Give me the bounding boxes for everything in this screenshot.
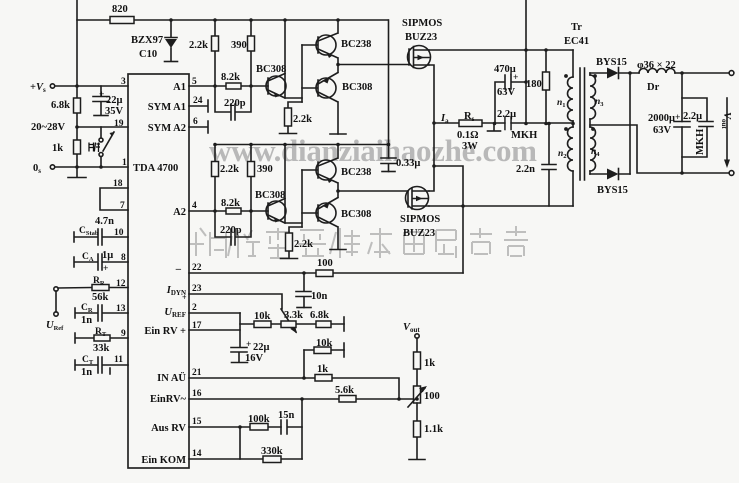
zener BZX97 C10 bbox=[165, 20, 177, 61]
wire 20-28V to pin19 bbox=[77, 126, 128, 128]
svg-text:22: 22 bbox=[192, 263, 202, 273]
wire 10k branch bbox=[240, 323, 344, 325]
svg-text:φ36 × 22: φ36 × 22 bbox=[637, 60, 676, 71]
svg-text:BC308: BC308 bbox=[255, 190, 285, 201]
wire n2 bottom to source rail bbox=[572, 171, 574, 206]
wire top supply rail bbox=[77, 19, 388, 21]
svg-text:+: + bbox=[246, 340, 251, 350]
diode BYS15 bottom bbox=[590, 173, 630, 175]
wire rectifier cathode bus bbox=[629, 73, 631, 174]
svg-text:A1: A1 bbox=[173, 82, 186, 93]
inductor Dr bbox=[639, 69, 675, 73]
resistor RR 56k pin12 bbox=[58, 287, 128, 290]
svg-text:Dr: Dr bbox=[647, 82, 660, 93]
svg-text:14: 14 bbox=[192, 449, 202, 459]
resistor 5.6k body bbox=[339, 396, 356, 403]
resistor 390 lower bbox=[250, 145, 252, 212]
arrow Vout bbox=[726, 98, 728, 160]
svg-text:2.2k: 2.2k bbox=[293, 114, 312, 125]
svg-text:63V: 63V bbox=[653, 125, 672, 136]
capacitor 22u 16V bbox=[231, 348, 247, 363]
svg-text:BYS15: BYS15 bbox=[596, 57, 627, 68]
capacitor 22u 35V bbox=[93, 86, 109, 115]
potentiometer 3.3k bbox=[281, 321, 296, 328]
terminal +Vs bbox=[50, 84, 54, 88]
transistor BC238 lower bbox=[316, 160, 336, 180]
resistor 390 upper bbox=[250, 20, 252, 86]
wire pin2/17 bus bbox=[239, 313, 241, 347]
svg-text:6.8k: 6.8k bbox=[51, 100, 70, 111]
transistor BC238 upper bbox=[316, 35, 336, 55]
svg-text:3: 3 bbox=[121, 77, 126, 87]
MOSFET M1 SIPMOS BUZ23 bbox=[408, 46, 431, 69]
wire pin23 to pot wiper bbox=[189, 294, 282, 309]
pin6 stub bbox=[189, 121, 208, 133]
wire feedback bus bbox=[301, 399, 303, 459]
resistor 1k body bbox=[74, 140, 81, 154]
svg-text:220p: 220p bbox=[220, 225, 242, 236]
capacitor 2000u 63V bbox=[681, 73, 683, 173]
svg-text:8.2k: 8.2k bbox=[221, 72, 240, 83]
vertical +V feed bus bbox=[525, 0, 527, 124]
svg-text:2.2n: 2.2n bbox=[516, 164, 535, 175]
svg-text:+: + bbox=[103, 264, 108, 274]
resistor 6.8k body bbox=[316, 321, 331, 328]
resistor 820 body bbox=[110, 17, 134, 24]
svg-text:6.8k: 6.8k bbox=[310, 310, 329, 321]
capacitor 2.2n bbox=[542, 124, 556, 207]
svg-text:URef: URef bbox=[46, 320, 64, 332]
potentiometer 100 bbox=[414, 386, 421, 403]
svg-text:3.3k: 3.3k bbox=[284, 310, 303, 321]
svg-text:Ia: Ia bbox=[440, 113, 449, 125]
junction pin19 bus bbox=[75, 125, 79, 129]
svg-text:2.2μ: 2.2μ bbox=[683, 111, 702, 122]
svg-text:MKH: MKH bbox=[695, 129, 706, 155]
wire base bus lower bbox=[301, 170, 303, 227]
svg-text:Vout: Vout bbox=[403, 322, 420, 334]
svg-text:+: + bbox=[513, 73, 518, 83]
svg-text:IN AÜ: IN AÜ bbox=[157, 371, 186, 384]
transformer core bbox=[580, 68, 585, 180]
svg-text:BC238: BC238 bbox=[341, 39, 371, 50]
svg-text:CStab: CStab bbox=[79, 226, 99, 237]
svg-text:2000μ: 2000μ bbox=[648, 113, 675, 124]
svg-text:1k: 1k bbox=[52, 143, 63, 154]
resistor 6.8k body bbox=[74, 98, 81, 113]
resistor RT 33k pin9 bbox=[75, 333, 128, 343]
wire 0.33u drop bbox=[388, 20, 390, 158]
wire Ia sense bbox=[434, 122, 573, 124]
resistor 1k output divider bbox=[416, 338, 418, 386]
resistor 8.2k lower body bbox=[226, 208, 241, 214]
svg-text:n4: n4 bbox=[591, 147, 600, 158]
svg-text:CA: CA bbox=[82, 252, 94, 263]
wire output top rail bbox=[630, 72, 729, 74]
wire gate M1 bbox=[338, 64, 409, 66]
svg-text:100: 100 bbox=[317, 258, 333, 269]
svg-text:0.33μ: 0.33μ bbox=[396, 158, 420, 169]
svg-text:+Vs: +Vs bbox=[30, 82, 46, 94]
svg-text:2: 2 bbox=[192, 303, 197, 313]
resistor 180 bbox=[545, 50, 547, 124]
svg-text:Ein KOM: Ein KOM bbox=[141, 455, 186, 466]
wire rail to upper-left driver bbox=[285, 20, 302, 98]
svg-text:2.2k: 2.2k bbox=[294, 239, 313, 250]
svg-text:EC41: EC41 bbox=[564, 36, 589, 47]
terminal Vout tap bbox=[415, 334, 419, 338]
svg-text:+: + bbox=[675, 113, 680, 123]
svg-text:UREF: UREF bbox=[164, 307, 186, 319]
pin18-pin7 loop bbox=[100, 188, 128, 210]
svg-text:C10: C10 bbox=[139, 49, 157, 60]
svg-text:5.6k: 5.6k bbox=[335, 385, 354, 396]
terminal URef bbox=[54, 287, 58, 291]
svg-text:23: 23 bbox=[192, 284, 202, 294]
resistor 2.2k lower-left bbox=[214, 145, 216, 212]
wire pin15 bbox=[189, 426, 281, 428]
wire pin15/14 left bus bbox=[239, 427, 241, 459]
MOSFET M2 SIPMOS BUZ23 bbox=[406, 187, 429, 210]
svg-text:0.1Ω: 0.1Ω bbox=[457, 130, 479, 141]
svg-text:390: 390 bbox=[257, 164, 273, 175]
resistor 100 body bbox=[316, 270, 333, 277]
svg-text:15: 15 bbox=[192, 417, 202, 427]
svg-text:35V: 35V bbox=[105, 106, 124, 117]
svg-text:–: – bbox=[175, 264, 182, 275]
resistor 100k body bbox=[250, 424, 268, 431]
capacitor CT 1n pin11 bbox=[75, 357, 128, 374]
svg-text:1k: 1k bbox=[317, 364, 328, 375]
resistor 10k second bbox=[304, 349, 344, 351]
svg-text:15n: 15n bbox=[278, 410, 295, 421]
wire left vertical bus bbox=[76, 0, 78, 177]
svg-text:390: 390 bbox=[231, 40, 247, 51]
svg-text:BC308: BC308 bbox=[341, 209, 371, 220]
wire pin4 A2 bbox=[189, 210, 268, 212]
wire secondary centre tap return bbox=[590, 125, 729, 173]
transistor BC308 lower-left bbox=[266, 201, 286, 221]
svg-text:1μ: 1μ bbox=[102, 250, 113, 261]
svg-text:SIPMOS: SIPMOS bbox=[400, 214, 440, 225]
svg-text:6: 6 bbox=[193, 117, 198, 127]
resistor 2.2k lower emitter bbox=[289, 227, 302, 258]
resistor 10k body bbox=[254, 321, 271, 328]
svg-text:220p: 220p bbox=[224, 98, 246, 109]
pin24 stub bbox=[189, 100, 208, 112]
capacitor CA 1u pin8 bbox=[74, 254, 128, 270]
svg-text:20~28V: 20~28V bbox=[31, 122, 65, 133]
wire gate M2 bbox=[338, 190, 408, 192]
wire 0s to pin1 bbox=[55, 166, 128, 168]
svg-text:2.2k: 2.2k bbox=[189, 40, 208, 51]
resistor 1.1k output divider bbox=[416, 403, 418, 459]
svg-text:16: 16 bbox=[192, 389, 202, 399]
wire +Vs to pin3 bbox=[55, 85, 128, 87]
svg-text:BYS15: BYS15 bbox=[597, 185, 628, 196]
svg-text:CR: CR bbox=[81, 303, 93, 314]
svg-text:19: 19 bbox=[114, 119, 124, 129]
junction +Vs bus bbox=[75, 84, 79, 88]
svg-text:100: 100 bbox=[424, 391, 440, 402]
svg-text:1.1k: 1.1k bbox=[424, 424, 443, 435]
capacitor 220p lower bbox=[215, 211, 251, 245]
wire pin5 A1 bbox=[189, 85, 268, 87]
wire base bus upper bbox=[301, 45, 303, 102]
svg-text:1: 1 bbox=[122, 158, 127, 168]
switch (duan) bbox=[100, 127, 102, 138]
svg-text:Ein RV +: Ein RV + bbox=[144, 326, 186, 337]
svg-text:EinRV~: EinRV~ bbox=[150, 394, 187, 405]
capacitor 470u 63V bbox=[495, 75, 526, 124]
wire M1 drain to transformer bbox=[429, 49, 573, 51]
capacitor 15n bbox=[281, 420, 302, 434]
capacitor 2.2u MKH series bbox=[505, 117, 511, 130]
svg-text:2.2k: 2.2k bbox=[220, 164, 239, 175]
svg-text:SYM A2: SYM A2 bbox=[148, 123, 186, 134]
junction 0s bus bbox=[75, 165, 79, 169]
resistor 2.2k upper-left bbox=[214, 20, 216, 86]
capacitor 2.2u MKH output branch bbox=[682, 98, 707, 121]
svg-text:22μ: 22μ bbox=[106, 95, 123, 106]
transformer secondary n3 bbox=[589, 73, 591, 75]
wire switch node to V2 bbox=[434, 166, 463, 273]
transistor BC308 lower-right bbox=[316, 203, 336, 223]
capacitor 220p upper bbox=[215, 86, 251, 120]
wire M2 source rail bbox=[429, 205, 573, 207]
svg-text:BUZ23: BUZ23 bbox=[403, 228, 435, 239]
svg-text:CT: CT bbox=[82, 355, 94, 366]
svg-text:4: 4 bbox=[192, 201, 197, 211]
terminal 0s bbox=[50, 165, 54, 169]
svg-text:33k: 33k bbox=[93, 343, 110, 354]
watermark chinese company glyph blocks bbox=[190, 226, 528, 258]
resistor 1k body bbox=[315, 375, 332, 382]
wire pin2 bbox=[189, 312, 240, 314]
svg-text:63V: 63V bbox=[497, 87, 516, 98]
svg-text:22μ: 22μ bbox=[253, 342, 270, 353]
transformer primary n2 bbox=[572, 121, 574, 127]
label duan glyph bbox=[89, 143, 100, 153]
svg-text:SIPMOS: SIPMOS bbox=[402, 18, 442, 29]
svg-text:3W: 3W bbox=[462, 141, 478, 152]
svg-text:10k: 10k bbox=[254, 311, 271, 322]
svg-text:Rs: Rs bbox=[464, 111, 475, 123]
transformer primary n1 bbox=[572, 50, 574, 77]
terminal Vout+ bbox=[729, 71, 734, 76]
svg-text:16V: 16V bbox=[245, 353, 264, 364]
svg-text:SYM A1: SYM A1 bbox=[148, 102, 186, 113]
wire rail2 to lower-left driver bbox=[285, 145, 302, 224]
transformer secondary n4 bbox=[589, 119, 591, 127]
ground MKH bbox=[493, 124, 495, 131]
resistor 2.2k upper emitter bbox=[288, 102, 302, 133]
svg-text:RR: RR bbox=[93, 276, 105, 287]
svg-text:Aus RV: Aus RV bbox=[151, 423, 186, 434]
resistor Rs body bbox=[459, 120, 482, 127]
svg-text:n3: n3 bbox=[595, 97, 604, 108]
wire pin21 1k bbox=[189, 378, 399, 399]
svg-text:2.2μ: 2.2μ bbox=[497, 109, 516, 120]
svg-text:A2: A2 bbox=[173, 207, 186, 218]
svg-text:BUZ23: BUZ23 bbox=[405, 32, 437, 43]
svg-text:24: 24 bbox=[193, 96, 203, 106]
rail-2 lower driver supply bbox=[215, 144, 389, 146]
svg-text:1k: 1k bbox=[424, 358, 435, 369]
svg-text:56k: 56k bbox=[92, 292, 109, 303]
transistor BC308 upper-left bbox=[266, 76, 286, 96]
svg-text:10k: 10k bbox=[316, 338, 333, 349]
capacitor CR 1n pin13 bbox=[75, 305, 128, 321]
svg-text:1n: 1n bbox=[81, 315, 92, 326]
svg-text:180: 180 bbox=[526, 79, 542, 90]
wire pin17 bbox=[189, 329, 240, 331]
svg-text:BC308: BC308 bbox=[256, 64, 286, 75]
wire pin14 330k bbox=[189, 458, 302, 460]
wire pin22 line bbox=[189, 272, 463, 274]
wire pin16 5.6k bbox=[189, 398, 413, 400]
svg-text:330k: 330k bbox=[261, 446, 283, 457]
terminal Vout- bbox=[729, 171, 734, 176]
svg-text:n2: n2 bbox=[558, 149, 567, 160]
svg-text:Vout: Vout bbox=[720, 112, 732, 129]
svg-text:n1: n1 bbox=[557, 98, 566, 109]
capacitor 10n bbox=[296, 273, 311, 308]
svg-text:BC308: BC308 bbox=[342, 82, 372, 93]
capacitor 0.33u bbox=[381, 158, 396, 172]
svg-text:RT: RT bbox=[95, 327, 107, 338]
svg-text:21: 21 bbox=[192, 368, 202, 378]
svg-text:10n: 10n bbox=[311, 291, 328, 302]
svg-text:+: + bbox=[99, 90, 104, 100]
svg-text:8.2k: 8.2k bbox=[221, 198, 240, 209]
svg-text:+: + bbox=[182, 293, 187, 302]
diode BYS15 top bbox=[590, 72, 630, 74]
resistor 8.2k upper body bbox=[226, 83, 241, 89]
svg-text:BZX97: BZX97 bbox=[131, 35, 163, 46]
ground left bus bbox=[68, 177, 86, 179]
svg-text:BC238: BC238 bbox=[341, 167, 371, 178]
ground output divider bbox=[409, 459, 425, 461]
svg-text:820: 820 bbox=[112, 4, 128, 15]
transistor BC308 upper-right bbox=[316, 78, 336, 98]
svg-text:TDA 4700: TDA 4700 bbox=[133, 163, 178, 174]
svg-text:4.7n: 4.7n bbox=[95, 216, 114, 227]
wire M1 source to M2 drain bbox=[429, 65, 434, 191]
svg-text:1n: 1n bbox=[81, 367, 92, 378]
capacitor Cstab 4.7n pin10 bbox=[74, 229, 128, 245]
svg-text:11: 11 bbox=[114, 355, 123, 365]
svg-text:MKH: MKH bbox=[511, 130, 537, 141]
svg-text:0s: 0s bbox=[33, 163, 41, 175]
svg-text:100k: 100k bbox=[248, 414, 270, 425]
svg-text:Tr: Tr bbox=[571, 22, 582, 33]
IC TDA4700 box bbox=[128, 74, 189, 468]
junction 0s switch bbox=[99, 165, 103, 169]
